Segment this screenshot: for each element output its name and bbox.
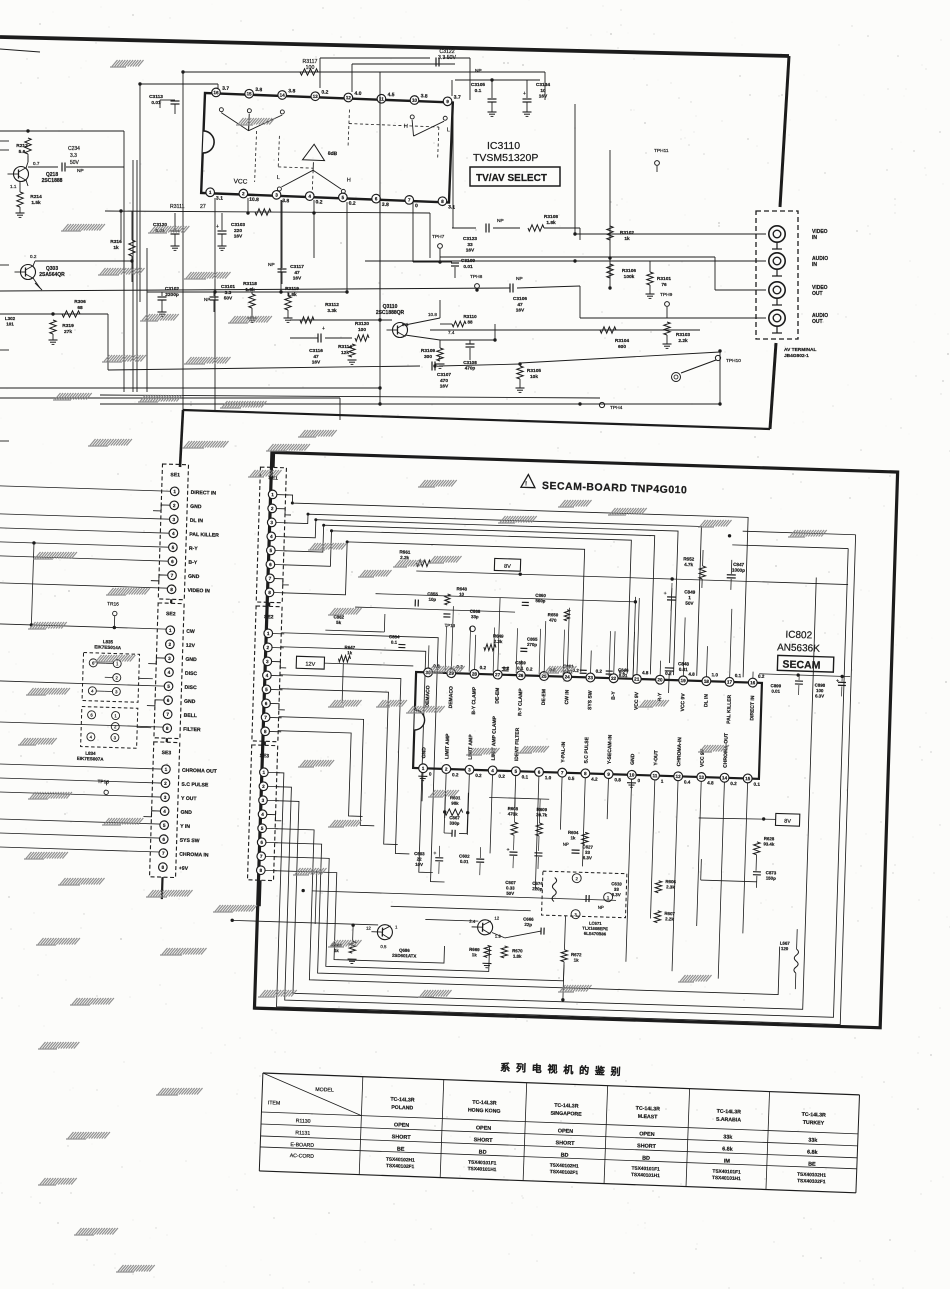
svg-text:VIDEO IN: VIDEO IN [187,588,210,595]
svg-text:1.0: 1.0 [545,775,552,780]
svg-text:0.5: 0.5 [568,776,575,781]
svg-text:20: 20 [657,677,663,682]
svg-text:!: ! [525,481,527,487]
svg-text:1.8k: 1.8k [513,954,522,959]
svg-text:TPH8: TPH8 [470,274,483,280]
svg-text:0.1: 0.1 [391,640,398,645]
svg-text:BE: BE [808,1162,816,1168]
svg-text:NP: NP [516,276,523,282]
svg-text:R672: R672 [571,952,582,957]
svg-text:TSX40102H1: TSX40102H1 [550,1163,579,1170]
svg-text:R647: R647 [345,645,356,650]
svg-text:TP18: TP18 [97,779,109,785]
svg-text:1.5k: 1.5k [31,200,41,206]
svg-text:FILTER: FILTER [183,727,201,734]
svg-text:300: 300 [424,354,432,360]
svg-text:SHORT: SHORT [555,1140,575,1147]
svg-text:R306: R306 [74,299,86,305]
svg-text:IN: IN [812,235,817,241]
svg-text:TSX40101H1: TSX40101H1 [712,1175,741,1182]
svg-text:1.8k: 1.8k [287,292,297,298]
svg-text:SHORT: SHORT [392,1134,412,1141]
svg-text:SYS SW: SYS SW [587,690,594,710]
svg-text:33k: 33k [723,1134,732,1140]
svg-text:DISC: DISC [185,671,198,677]
svg-text:CW IN: CW IN [564,689,570,704]
svg-text:S.C PULSE: S.C PULSE [584,736,591,763]
svg-text:VCC 9V: VCC 9V [680,693,687,712]
svg-text:4.8: 4.8 [642,670,649,675]
svg-text:3.1: 3.1 [216,196,223,202]
svg-text:IN: IN [812,262,817,268]
svg-text:13: 13 [313,94,319,99]
svg-text:TSX40101F1: TSX40101F1 [468,1160,497,1167]
svg-text:SECAM: SECAM [782,659,821,672]
svg-text:4.8: 4.8 [707,780,714,785]
svg-text:C627: C627 [582,844,593,849]
svg-text:12V: 12V [186,643,196,649]
svg-text:2SA564QR: 2SA564QR [39,272,65,278]
svg-text:6LS470B86: 6LS470B86 [584,931,607,937]
svg-text:TV/AV SELECT: TV/AV SELECT [476,173,547,184]
svg-text:TPH11: TPH11 [654,148,669,154]
svg-text:28: 28 [472,671,478,676]
svg-text:10: 10 [412,98,418,103]
svg-text:R3108: R3108 [544,214,558,220]
svg-text:6.8k: 6.8k [722,1146,733,1152]
svg-text:16V: 16V [312,360,321,366]
svg-text:C849: C849 [684,589,696,594]
svg-text:VCC: VCC [233,178,247,186]
svg-text:AC-CORD: AC-CORD [290,1153,315,1160]
svg-text:C3106: C3106 [513,296,527,302]
svg-text:R3106: R3106 [622,268,636,274]
svg-text:3.8: 3.8 [282,198,289,204]
svg-text:1k: 1k [334,948,340,953]
svg-text:EIK7ES007A: EIK7ES007A [77,756,105,762]
svg-text:SE1: SE1 [170,472,180,478]
svg-text:LIMIT AMP: LIMIT AMP [468,734,475,760]
svg-text:12: 12 [676,774,682,779]
svg-text:AN5636K: AN5636K [777,642,820,654]
svg-text:C848: C848 [678,661,690,666]
svg-text:27: 27 [495,672,501,677]
svg-text:13: 13 [699,775,705,780]
svg-text:R3105: R3105 [527,368,541,374]
svg-text:DIRECT IN: DIRECT IN [749,695,756,721]
svg-text:14: 14 [722,775,728,780]
svg-text:C3101: C3101 [221,284,235,290]
svg-text:MODEL: MODEL [315,1087,334,1094]
svg-text:R3109: R3109 [421,348,435,354]
svg-text:TPH9: TPH9 [660,292,673,298]
svg-text:0.01: 0.01 [619,673,628,678]
svg-text:OPEN: OPEN [639,1131,655,1138]
svg-text:470: 470 [440,378,448,384]
svg-text:22p: 22p [524,922,532,927]
svg-text:C3103: C3103 [231,222,245,228]
svg-text:TSX40102F1: TSX40102F1 [550,1169,579,1176]
svg-text:1k: 1k [472,952,478,957]
svg-text:BD: BD [642,1155,650,1161]
svg-text:CHROMA-IN: CHROMA-IN [676,737,683,767]
svg-text:Y-OUT: Y-OUT [653,750,659,765]
svg-text:1.8k: 1.8k [546,220,556,226]
svg-text:L: L [277,175,280,181]
svg-text:12: 12 [494,916,500,921]
svg-text:4.7k: 4.7k [684,562,694,567]
svg-text:M.EAST: M.EAST [638,1114,659,1121]
svg-text:100: 100 [358,327,366,333]
svg-text:C3116: C3116 [309,348,323,354]
svg-text:+: + [523,91,526,97]
svg-text:0.2: 0.2 [480,665,487,670]
svg-text:3.7: 3.7 [454,95,461,101]
svg-text:SE3: SE3 [260,753,270,759]
svg-text:BD: BD [479,1149,487,1155]
svg-text:DEMACO: DEMACO [425,685,432,708]
svg-text:470p: 470p [465,366,476,371]
svg-text:+: + [506,847,509,853]
svg-text:16V: 16V [539,94,548,100]
svg-text:3.3k: 3.3k [327,308,337,314]
svg-text:R661: R661 [399,549,411,554]
svg-text:Y OUT: Y OUT [181,796,198,803]
svg-text:AV TERMINAL: AV TERMINAL [784,347,816,353]
svg-text:B-Y CLAMP: B-Y CLAMP [471,686,478,715]
svg-text:PAL KILLER: PAL KILLER [189,532,219,539]
svg-text:C3102: C3102 [165,286,179,292]
svg-text:2.3k: 2.3k [666,884,675,889]
svg-text:0.2: 0.2 [498,774,505,779]
svg-text:TC-14L3R: TC-14L3R [554,1103,579,1110]
svg-text:0.4: 0.4 [684,779,691,784]
svg-text:15: 15 [745,776,751,781]
svg-text:L302: L302 [5,316,16,321]
svg-text:3.8: 3.8 [255,87,262,93]
svg-text:0.01: 0.01 [679,667,689,672]
svg-text:CHROMA IN: CHROMA IN [179,852,209,859]
svg-text:C234: C234 [68,146,80,152]
svg-text:2.2k: 2.2k [665,916,674,921]
svg-text:1k: 1k [570,835,576,840]
svg-text:R3101: R3101 [657,276,671,282]
svg-text:16V: 16V [516,308,525,314]
svg-text:1k: 1k [113,245,119,251]
svg-text:R3110: R3110 [463,314,477,319]
svg-text:33: 33 [467,242,473,248]
svg-text:SE2: SE2 [166,611,176,617]
svg-text:PAL KILLER: PAL KILLER [726,694,733,724]
svg-text:0.2: 0.2 [758,674,765,679]
svg-text:10p: 10p [429,597,437,602]
svg-text:3.7: 3.7 [222,86,229,92]
svg-text:TC-14L3R: TC-14L3R [717,1109,742,1116]
svg-text:IC3110: IC3110 [487,140,520,152]
svg-text:1k: 1k [624,236,630,242]
svg-text:R1131: R1131 [295,1130,310,1137]
svg-text:DEMACO: DEMACO [448,686,455,709]
svg-text:CHROMA OUT: CHROMA OUT [182,768,218,775]
svg-text:0.1: 0.1 [735,673,742,678]
svg-text:C847: C847 [733,562,745,567]
svg-text:68: 68 [77,305,83,311]
svg-text:10.8: 10.8 [249,197,259,203]
svg-text:10.8: 10.8 [428,312,437,317]
svg-text:C3134: C3134 [536,82,550,88]
svg-text:R1130: R1130 [296,1118,311,1125]
svg-text:21: 21 [634,677,640,682]
svg-text:R604: R604 [568,830,579,835]
svg-text:R-Y: R-Y [189,546,199,552]
svg-text:DISC: DISC [184,685,197,691]
svg-text:Y-SECAM-IN: Y-SECAM-IN [607,734,614,764]
svg-text:4.8: 4.8 [688,672,695,677]
svg-text:11: 11 [652,773,657,778]
svg-text:3.3: 3.3 [70,153,77,159]
svg-text:OPEN: OPEN [558,1128,574,1135]
svg-text:GND: GND [184,699,196,705]
svg-text:GND: GND [185,657,197,663]
svg-text:22: 22 [611,676,617,681]
svg-text:0.2: 0.2 [315,199,322,205]
svg-text:12V: 12V [305,662,315,668]
svg-text:16V: 16V [440,384,449,390]
svg-text:0.1: 0.1 [522,774,529,779]
svg-text:101: 101 [6,322,14,327]
svg-text:TPH4: TPH4 [610,405,623,411]
svg-text:POLAND: POLAND [391,1105,413,1112]
svg-text:BE: BE [397,1146,405,1152]
svg-text:47: 47 [294,270,300,276]
svg-text:R3112: R3112 [325,302,339,308]
svg-text:GND: GND [421,747,427,759]
svg-text:1.1: 1.1 [10,184,17,189]
svg-text:47: 47 [313,354,319,360]
svg-text:10: 10 [629,772,635,777]
svg-text:+: + [664,591,667,597]
svg-text:6.3V: 6.3V [583,855,592,860]
svg-text:+: + [433,851,436,857]
svg-text:TVSM51320P: TVSM51320P [473,152,538,164]
svg-text:33: 33 [585,850,591,855]
svg-text:3.8: 3.8 [421,93,428,99]
svg-text:C3117: C3117 [290,264,304,270]
svg-text:0.2: 0.2 [596,669,603,674]
svg-text:SHORT: SHORT [637,1143,657,1150]
svg-text:14: 14 [280,93,286,98]
svg-text:TSX40102H1: TSX40102H1 [797,1172,826,1179]
svg-text:B-Y: B-Y [188,560,198,566]
svg-text:12k: 12k [341,350,349,356]
svg-text:0.2: 0.2 [30,254,37,259]
svg-text:15: 15 [246,91,252,96]
svg-text:50V: 50V [224,296,233,302]
svg-text:7.4: 7.4 [448,330,455,335]
svg-text:6.8k: 6.8k [807,1149,818,1155]
svg-text:39.7k: 39.7k [536,812,548,817]
svg-text:0.2: 0.2 [321,89,328,95]
svg-text:L: L [447,127,450,133]
svg-text:NP: NP [563,842,569,847]
svg-text:0.01: 0.01 [460,859,469,864]
svg-text:R3104: R3104 [615,338,629,344]
svg-text:BD: BD [561,1152,569,1158]
svg-text:0.8: 0.8 [614,777,621,782]
svg-text:HONG KONG: HONG KONG [468,1108,501,1115]
svg-text:24: 24 [565,674,571,679]
svg-text:0.2: 0.2 [730,781,737,786]
svg-text:220p: 220p [532,886,542,891]
svg-text:E-BOARD: E-BOARD [290,1142,314,1149]
svg-text:R213: R213 [16,143,28,149]
svg-text:TPH10: TPH10 [726,358,741,364]
svg-text:16: 16 [750,680,756,685]
svg-text:H: H [404,124,408,130]
svg-text:2.4: 2.4 [469,919,476,924]
svg-text:EIK7ES014A: EIK7ES014A [94,644,122,650]
svg-text:TSX40101H1: TSX40101H1 [467,1166,496,1173]
svg-text:8V: 8V [784,819,791,825]
svg-text:10V: 10V [415,862,423,867]
svg-text:0: 0 [415,203,418,209]
svg-text:270p: 270p [527,642,537,647]
svg-text:R-Y CLAMP: R-Y CLAMP [517,688,524,717]
svg-text:R3103: R3103 [676,332,690,338]
svg-text:100k: 100k [624,274,635,280]
svg-text:0.5: 0.5 [380,944,387,949]
svg-text:TSX40101F1: TSX40101F1 [631,1166,660,1173]
svg-text:0.01: 0.01 [771,689,780,694]
svg-text:+: + [438,356,441,362]
svg-text:0.1: 0.1 [753,782,760,787]
svg-text:8dB: 8dB [328,151,338,157]
svg-text:TSX40102H1: TSX40102H1 [386,1157,415,1164]
svg-text:C3107: C3107 [437,372,451,378]
svg-text:R3120: R3120 [355,321,369,327]
svg-text:2.2k: 2.2k [678,338,688,344]
svg-text:50V: 50V [685,601,694,606]
svg-text:SYS SW: SYS SW [180,838,200,845]
svg-text:TPH7: TPH7 [432,234,445,240]
svg-text:GND: GND [190,504,202,510]
svg-text:50V: 50V [506,891,514,896]
svg-text:TC-14L3R: TC-14L3R [802,1112,827,1119]
svg-text:GND: GND [188,574,200,580]
svg-text:33: 33 [614,887,620,892]
svg-text:1k: 1k [574,958,580,963]
svg-text:IDENT FILTER: IDENT FILTER [514,727,521,761]
svg-text:NP: NP [475,68,482,74]
svg-text:C3113: C3113 [149,94,163,100]
svg-text:2SC1888: 2SC1888 [42,178,63,184]
svg-text:B-Y: B-Y [611,690,617,699]
svg-text:18: 18 [704,679,710,684]
svg-text:SE3: SE3 [162,750,172,756]
svg-text:R669: R669 [469,947,480,952]
svg-text:12: 12 [346,95,352,100]
svg-text:0.2: 0.2 [475,773,482,778]
svg-text:4.0: 4.0 [354,91,361,97]
svg-text:100: 100 [306,65,315,71]
svg-text:TSX40102F1: TSX40102F1 [386,1163,415,1170]
svg-text:3.1: 3.1 [448,204,455,210]
svg-text:Y IN: Y IN [180,824,190,830]
svg-text:ITEM: ITEM [268,1100,281,1106]
svg-text:88: 88 [467,320,473,325]
svg-text:+9V: +9V [179,866,189,872]
svg-text:GND: GND [630,753,636,765]
svg-text:150p: 150p [766,875,776,880]
svg-text:GND: GND [180,810,192,816]
svg-text:19: 19 [681,678,687,683]
svg-text:TSX40101H1: TSX40101H1 [631,1172,660,1179]
svg-text:2SD601ATX: 2SD601ATX [392,953,417,959]
svg-text:IC802: IC802 [785,630,812,642]
svg-text:50V: 50V [70,160,80,166]
svg-text:0.7: 0.7 [33,161,40,166]
svg-text:R3102: R3102 [620,230,634,236]
svg-text:27k: 27k [64,329,72,335]
svg-text:R652: R652 [683,556,695,561]
svg-text:R214: R214 [30,194,42,200]
svg-text:NP: NP [497,218,504,224]
svg-text:OUT: OUT [812,319,823,325]
svg-text:0.1: 0.1 [517,666,524,671]
svg-text:C3108: C3108 [463,360,477,365]
svg-text:3.3: 3.3 [225,290,232,296]
svg-text:NP: NP [77,168,84,174]
svg-text:470: 470 [549,618,557,623]
svg-text:TURKEY: TURKEY [803,1120,825,1127]
svg-text:22: 22 [417,857,423,862]
svg-text:C3105: C3105 [471,82,485,88]
svg-text:DL IN: DL IN [703,694,709,708]
svg-text:L835: L835 [103,639,114,644]
svg-text:+: + [322,326,325,332]
svg-text:TSX40101F1: TSX40101F1 [712,1169,741,1176]
svg-text:R648: R648 [456,586,467,591]
svg-text:93.4k: 93.4k [763,841,775,846]
svg-text:12: 12 [366,926,372,931]
svg-text:C610: C610 [611,881,622,886]
svg-text:27: 27 [200,204,206,210]
svg-text:NP: NP [268,262,275,268]
svg-text:NP: NP [204,297,210,302]
svg-text:8V: 8V [504,564,511,570]
svg-text:6.3V: 6.3V [815,693,824,698]
svg-text:TR16: TR16 [107,601,119,607]
svg-text:SINGAPORE: SINGAPORE [550,1111,582,1118]
svg-text:16V: 16V [466,248,475,254]
svg-text:0.2: 0.2 [349,201,356,207]
svg-text:R3118: R3118 [243,281,257,287]
svg-text:26: 26 [518,673,524,678]
svg-text:DE-EM: DE-EM [541,689,548,705]
svg-text:NP: NP [598,905,604,910]
svg-text:47: 47 [517,302,523,308]
svg-text:IM: IM [724,1158,731,1164]
svg-text:TC-14L3R: TC-14L3R [390,1097,415,1104]
svg-text:OUT: OUT [812,291,823,297]
svg-text:DIRECT IN: DIRECT IN [191,490,217,497]
svg-text:0.1: 0.1 [475,88,482,94]
svg-text:330p: 330p [449,821,459,826]
svg-text:L834: L834 [85,751,96,756]
svg-text:5.6: 5.6 [19,149,26,155]
svg-text:R316: R316 [110,239,122,245]
svg-text:C603: C603 [414,851,425,856]
